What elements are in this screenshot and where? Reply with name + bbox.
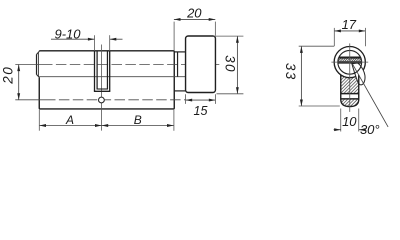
dimension 30 right line <box>236 36 238 94</box>
stem band line lower <box>341 98 359 100</box>
stem outline <box>341 75 359 107</box>
dimension 20 top extension right <box>214 22 216 36</box>
svg-text:20: 20 <box>1 66 16 85</box>
dimension 30 extension bottom <box>217 93 244 95</box>
key section band <box>338 58 361 61</box>
profile tangent edge line <box>39 76 185 78</box>
dimension A-B extension right <box>173 110 175 131</box>
cam bottom edge <box>174 90 185 92</box>
dimension 33 extension bottom <box>299 105 340 107</box>
dimension 10 arrow right <box>359 128 366 131</box>
keyway angle ray <box>353 64 389 127</box>
dimension 17 extension left <box>333 28 335 46</box>
svg-text:15: 15 <box>194 104 208 118</box>
axis centerline <box>42 64 221 66</box>
section vertical centerline <box>349 43 351 112</box>
plug inner circle <box>338 50 362 74</box>
dimension B arrow right <box>167 124 174 127</box>
plug chord line lower <box>338 62 362 64</box>
thumbturn knob <box>186 36 216 93</box>
svg-text:10: 10 <box>342 114 357 129</box>
dimension 20 left arrow bottom <box>17 93 20 100</box>
dimension 30 extension top <box>214 35 244 37</box>
dimension 10 arrow left <box>334 128 341 131</box>
dimension 10 line left <box>334 129 341 131</box>
screw axis centerline <box>45 99 186 101</box>
body front face line <box>35 55 37 75</box>
dimension 20 left arrow top <box>17 65 20 72</box>
dimension A arrow right <box>95 124 102 127</box>
cylinder body outline <box>39 51 174 109</box>
face chamfer top <box>36 51 39 54</box>
neck top edge <box>174 51 185 53</box>
dimension 10 extension right <box>358 109 360 132</box>
keyway outer wall left <box>94 51 96 91</box>
section stem hatch upper <box>341 75 359 93</box>
plug chord line upper <box>339 56 361 58</box>
fixing screw hole <box>99 97 105 103</box>
dimension A-B extension left <box>38 110 40 131</box>
housing outer circle <box>334 47 365 78</box>
dimension 33 arrow top <box>300 46 303 53</box>
face chamfer edge line <box>37 52 39 77</box>
dimension 30 arrow top <box>236 36 239 43</box>
keyway outer wall right <box>109 51 111 91</box>
keyway inner bottom <box>97 88 109 90</box>
screw axis centerline extension <box>15 99 45 101</box>
dimension 17 arrow right <box>359 29 366 32</box>
dimension 20 top arrow left <box>174 18 181 21</box>
face chamfer bottom <box>36 75 39 78</box>
dimension 10 line right <box>359 129 366 131</box>
section horizontal centerline <box>331 61 368 63</box>
dimension A arrow left <box>39 124 46 127</box>
keyway inner wall right <box>106 51 108 89</box>
dimension 9-10 arrow left <box>88 38 95 41</box>
dimension 9-10 extension right <box>109 35 111 51</box>
section stem hatch lower <box>341 99 359 106</box>
dimension 33 line <box>300 46 302 106</box>
dimension 17 arrow left <box>334 29 341 32</box>
svg-text:B: B <box>134 113 142 127</box>
dimension 20 top arrow right <box>209 18 216 21</box>
dimension 9-10 arrow right <box>110 38 117 41</box>
dimension 15 extension left <box>185 94 187 104</box>
dimension 15 arrow left <box>186 99 193 102</box>
dimension 9-10 line right <box>110 38 123 40</box>
svg-text:30: 30 <box>222 55 237 73</box>
keyway outer bottom <box>94 90 110 92</box>
dimension 17 extension right <box>364 28 366 46</box>
dimension 15 extension right <box>214 94 216 104</box>
svg-text:33: 33 <box>283 63 298 81</box>
keyway vertical centerline <box>101 45 103 131</box>
dimension 9-10 extension left <box>94 35 96 51</box>
dimension 30 arrow bottom <box>236 87 239 94</box>
cam ring edge <box>177 52 179 77</box>
dimension A-B line <box>39 125 173 127</box>
dimension 33 extension top <box>299 45 334 47</box>
keyway slot section rotated 30 <box>352 63 365 85</box>
dimension 20 top extension left <box>173 22 175 51</box>
dimension 10 extension left <box>340 109 342 132</box>
dimension 20 top line <box>174 18 215 20</box>
dimension 15 arrow right <box>209 99 216 102</box>
dimension 15 line <box>186 99 216 101</box>
svg-text:17: 17 <box>342 17 357 32</box>
stem band line upper <box>341 93 359 95</box>
dimension 9-10 line left <box>51 38 95 40</box>
svg-text:A: A <box>65 113 74 127</box>
dimension 33 arrow bottom <box>300 100 303 107</box>
dimension B arrow left <box>102 124 109 127</box>
dimension 20 left line <box>18 65 20 100</box>
dimension 17 line <box>334 30 365 32</box>
keyway inner wall left <box>96 51 98 89</box>
svg-text:20: 20 <box>186 5 202 20</box>
axis centerline extension <box>15 64 42 66</box>
